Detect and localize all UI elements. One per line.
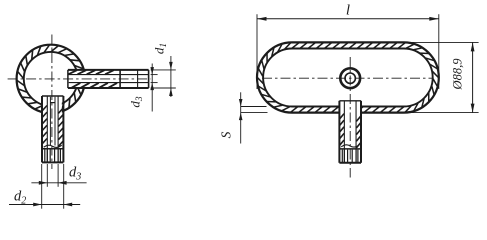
ring outer circle <box>17 45 85 113</box>
stem bore left line <box>46 96 48 162</box>
extension lines below stem inner <box>46 164 48 187</box>
stem outer right edge <box>62 96 64 162</box>
extension lines for diameter <box>404 41 479 43</box>
dimension line S <box>240 92 242 143</box>
extension lines for l <box>256 14 258 89</box>
peg joint line <box>137 70 139 88</box>
oval outer outline <box>257 42 439 112</box>
peg outer bottom edge <box>68 87 149 89</box>
dimension line d3 (stem inner) <box>31 182 86 184</box>
stem top end line <box>42 95 63 97</box>
dimension line d2 (stem outer) <box>9 204 80 206</box>
oval horizontal centerline <box>262 77 434 79</box>
oval wall hatching <box>292 43 299 48</box>
stem outer left edge <box>41 96 43 162</box>
stem lower stripes <box>44 150 46 162</box>
stem vertical centerline <box>349 57 351 178</box>
dimension line l <box>257 18 439 20</box>
peg section break line <box>119 70 121 88</box>
right stem outer edges <box>338 101 340 163</box>
oval inner outline <box>263 49 433 107</box>
peg wall hatching <box>68 70 77 74</box>
svg-text:S: S <box>219 131 234 138</box>
right stem bottom edge <box>339 162 361 164</box>
extension lines below stem outer <box>41 164 43 209</box>
stem bottom edge <box>42 161 63 163</box>
peg bore top line <box>69 74 149 76</box>
right stem bore lines <box>343 101 345 163</box>
right stem break wavy line <box>341 145 359 147</box>
right stem wall hatching <box>340 114 344 119</box>
svg-text:Ø88,9: Ø88,9 <box>451 58 465 91</box>
right view: oval handle in section <box>219 3 479 178</box>
left horizontal centerline <box>8 78 151 80</box>
center hub inner circle <box>345 73 355 83</box>
right stem joint line <box>339 148 361 150</box>
extension lines for S <box>241 106 267 108</box>
svg-text:l: l <box>346 3 350 19</box>
extension lines for d1 (outer) <box>151 69 176 71</box>
stem wall hatching <box>42 106 47 111</box>
peg left end face <box>67 70 69 88</box>
stem joint line <box>42 148 63 150</box>
dimension line d1 <box>170 56 172 97</box>
left view: ring cross-section with stem and peg <box>8 35 176 209</box>
stem inner rod lines <box>49 97 51 146</box>
extension lines for d3 (inner) <box>151 74 158 76</box>
stem inner rod crossbar <box>50 102 55 104</box>
center hub outer circle <box>340 68 360 88</box>
peg right end line <box>148 70 150 88</box>
right stem top end line <box>339 100 361 102</box>
stem break wavy line <box>44 145 62 147</box>
stem bore right line <box>57 96 59 162</box>
left vertical centerline <box>51 35 53 170</box>
ring inner circle <box>24 52 78 106</box>
ring section hatching <box>78 79 84 87</box>
peg outer top edge <box>68 69 149 71</box>
peg bore bottom line <box>69 82 149 84</box>
right stem lower stripes <box>341 150 343 163</box>
dimension line diameter <box>472 42 474 112</box>
dimension line d3 (peg) <box>151 64 153 112</box>
